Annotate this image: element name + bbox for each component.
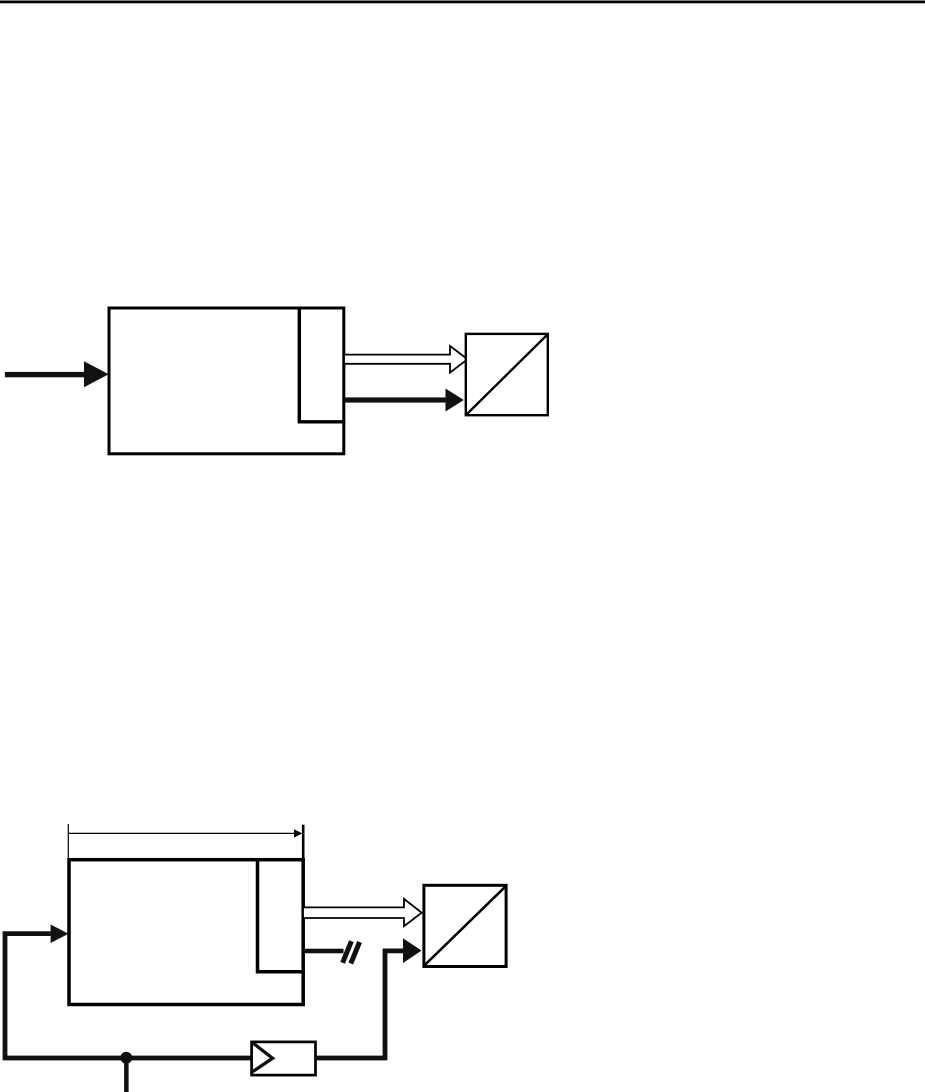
wire: feedback input arrow into block (bottom diagram)	[5, 925, 251, 1059]
node: junction dot on feedback line	[120, 1052, 132, 1064]
wire: input arrow into transmitter block (top diagram)	[5, 361, 109, 387]
wire: broken output stub with break mark (bottom diagram)	[303, 941, 360, 963]
block: A/D converter box with diagonal (top diagram)	[466, 334, 548, 415]
block: inner output section rectangle (top diagram)	[299, 307, 345, 422]
wire: feedback line from amplifier up to converter (bottom diagram)	[317, 938, 422, 1058]
top page rule	[0, 1, 925, 4]
block: A/D converter box with diagonal (bottom diagram)	[424, 885, 506, 966]
block: transmitter main rectangle (top diagram)	[109, 308, 344, 454]
block: transmitter main rectangle (bottom diagram)	[69, 860, 303, 1005]
wire: branch stub downward from junction	[124, 1058, 129, 1092]
wire: thick analog-output arrow (top diagram)	[344, 389, 464, 412]
symbol: chevron inside amplifier box	[252, 1043, 272, 1072]
block: inner output section rectangle (bottom diagram)	[258, 859, 306, 972]
dimension line with arrow over block (bottom diagram)	[68, 824, 303, 859]
wire: hollow digital-signal arrow (bottom diagram)	[303, 899, 422, 926]
wire: hollow digital-signal arrow (top diagram)	[344, 346, 468, 373]
block: amplifier / barrier box (bottom diagram)	[252, 1042, 316, 1075]
